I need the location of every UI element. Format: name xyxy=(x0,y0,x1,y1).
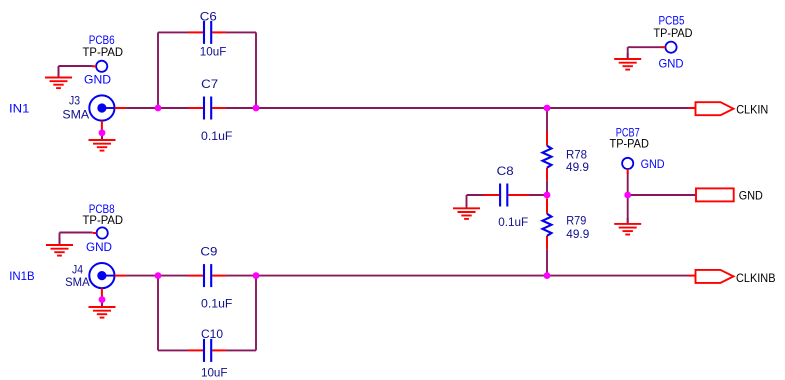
wire bottom loop lower horizontal left xyxy=(158,349,189,351)
wire PCB6 pad to ground elbow xyxy=(59,65,93,67)
ground below PCB7 node xyxy=(614,218,641,235)
svg-text:0.1uF: 0.1uF xyxy=(201,297,232,311)
wire top loop right vertical xyxy=(255,32,257,108)
wire bottom loop lower horizontal right xyxy=(226,349,256,351)
svg-text:R79: R79 xyxy=(566,213,586,227)
junction top loop right xyxy=(253,105,260,112)
wire R78 top from rail xyxy=(546,108,548,132)
svg-text:49.9: 49.9 xyxy=(566,160,589,174)
wire top rail from J3 to C7 xyxy=(126,107,188,109)
svg-text:10uF: 10uF xyxy=(201,366,228,380)
wire node to GND port xyxy=(628,194,696,196)
junction bottom loop right xyxy=(253,272,260,279)
test pad PCB7 xyxy=(622,158,633,174)
wire C8 to mid node xyxy=(529,194,548,196)
svg-text:SMA: SMA xyxy=(62,107,90,121)
wire PCB8 pad to ground elbow xyxy=(60,232,93,234)
port CLKINB xyxy=(696,270,734,283)
ground below PCB8 pad xyxy=(46,238,73,256)
wire top rail from C7 to CLKIN xyxy=(226,107,689,109)
svg-text:C8: C8 xyxy=(497,164,514,178)
capacitor C7 xyxy=(188,97,226,120)
wire bottom rail from C9 to CLKINB xyxy=(226,275,689,277)
wire top loop left vertical xyxy=(157,32,159,108)
ground at C8 xyxy=(453,195,480,219)
junction top loop left xyxy=(155,105,162,112)
svg-text:10uF: 10uF xyxy=(200,44,227,58)
ground below PCB5 pad xyxy=(614,53,641,70)
wire J4 pin to ground xyxy=(101,296,103,307)
junction J3 ground xyxy=(99,129,106,136)
capacitor C9 xyxy=(188,264,226,287)
svg-text:SMA: SMA xyxy=(65,275,90,289)
wire red stub before CLKINB port xyxy=(689,275,696,277)
svg-text:TP-PAD: TP-PAD xyxy=(654,26,693,40)
junction top rail / R78 xyxy=(544,105,551,112)
ground below J3 xyxy=(89,136,116,151)
svg-text:C6: C6 xyxy=(200,10,217,24)
test pad PCB8 xyxy=(93,227,108,238)
svg-text:TP-PAD: TP-PAD xyxy=(610,137,649,151)
wire R79 bottom to rail xyxy=(546,250,548,276)
connector J3 SMA xyxy=(89,95,126,132)
svg-text:GND: GND xyxy=(739,189,763,203)
connector J4 SMA xyxy=(89,263,126,300)
svg-text:TP-PAD: TP-PAD xyxy=(83,45,124,59)
wire bottom loop left vertical xyxy=(157,276,159,351)
svg-text:CLKIN: CLKIN xyxy=(736,103,768,117)
svg-text:IN1: IN1 xyxy=(9,102,30,116)
junction bottom loop left xyxy=(155,272,162,279)
svg-text:0.1uF: 0.1uF xyxy=(201,129,232,143)
wire top loop upper horizontal left xyxy=(158,31,189,33)
ground below PCB6 pad xyxy=(45,66,72,88)
svg-text:CLKINB: CLKINB xyxy=(736,271,776,285)
wire top loop upper horizontal right xyxy=(226,31,256,33)
svg-text:C7: C7 xyxy=(201,77,218,91)
svg-text:TP-PAD: TP-PAD xyxy=(83,213,124,227)
resistor R78 xyxy=(543,132,552,181)
test pad PCB6 xyxy=(92,61,107,72)
port GND xyxy=(696,188,734,201)
svg-text:GND: GND xyxy=(84,73,111,87)
resistor R79 xyxy=(543,199,552,250)
svg-text:C9: C9 xyxy=(200,245,217,259)
capacitor C10 xyxy=(188,339,226,362)
svg-text:GND: GND xyxy=(659,57,684,71)
capacitor C8 xyxy=(483,184,529,207)
svg-text:C10: C10 xyxy=(201,327,223,341)
wire PCB5 pad to ground elbow xyxy=(628,46,664,48)
wire below R78 to mid node xyxy=(546,180,548,195)
junction J4 ground xyxy=(99,296,106,303)
port CLKIN xyxy=(696,102,734,115)
svg-text:GND: GND xyxy=(86,240,112,254)
svg-text:GND: GND xyxy=(641,157,665,171)
junction mid node C8/R78/R79 xyxy=(544,192,551,199)
svg-text:49.9: 49.9 xyxy=(566,227,589,241)
junction bottom rail / R79 xyxy=(544,272,551,279)
wire PCB7 pad down to node xyxy=(627,172,629,195)
wire red stub before CLKIN port xyxy=(689,107,696,109)
wire J3 pin to ground xyxy=(101,130,103,141)
junction PCB7 / GND port xyxy=(624,192,631,199)
svg-text:IN1B: IN1B xyxy=(9,269,34,283)
wire bottom loop right vertical xyxy=(255,276,257,351)
svg-text:J3: J3 xyxy=(69,93,80,107)
ground below J4 xyxy=(89,302,116,318)
wire C8 to ground elbow xyxy=(467,194,484,196)
wire bottom rail from J4 to C9 xyxy=(126,275,188,277)
capacitor C6 xyxy=(188,21,226,44)
wire PCB7 node down to ground xyxy=(627,195,629,224)
test pad PCB5 xyxy=(662,42,677,53)
svg-text:0.1uF: 0.1uF xyxy=(498,215,528,229)
